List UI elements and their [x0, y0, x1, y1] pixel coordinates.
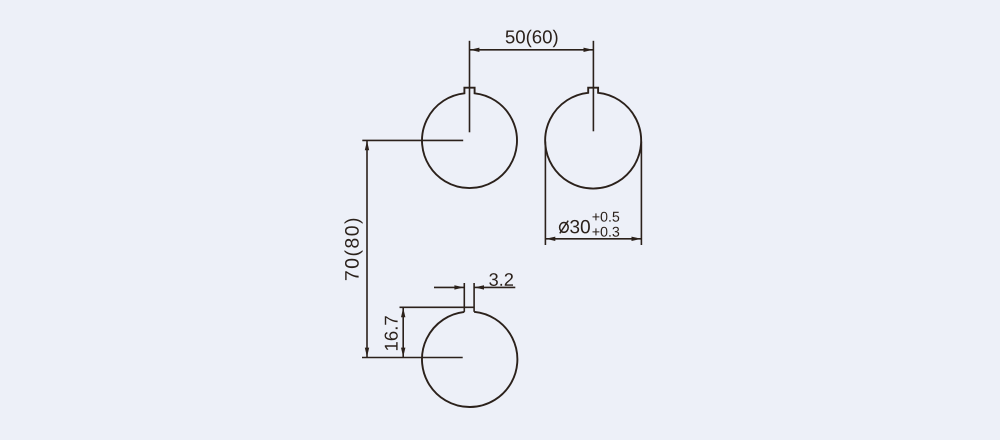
extension line bottom of 70(80), center line of bottom circle: [362, 357, 463, 359]
hole circle top-right with keyway notch: [545, 88, 641, 189]
arrowhead 70(80) bottom: [365, 348, 369, 358]
arrowhead 50(60) left: [470, 48, 480, 52]
hole circle top-left with keyway notch: [422, 88, 517, 188]
extension line top of 16.7, keyway top edge of bottom circle: [400, 306, 475, 308]
label 30 of diameter dimension: [570, 220, 590, 234]
label 70(80) rotated: [345, 219, 363, 280]
center line vertical, top-right circle (extension for 50(60)): [592, 41, 594, 132]
keyway side extension line right, bottom circle: [473, 283, 475, 312]
dimension line diameter 30: [545, 238, 641, 240]
arrowhead 70(80) top: [365, 141, 369, 151]
diameter symbol circle of ø30: [560, 223, 569, 233]
dimension line 3.2 left segment: [434, 286, 464, 288]
hole circle bottom with keyway notch: [422, 312, 517, 407]
extension line right of diameter dimension: [640, 142, 642, 246]
dimension line 70(80) vertical: [366, 140, 368, 357]
arrowhead 3.2 left (points right): [454, 285, 464, 289]
keyway side extension line left, bottom circle: [463, 283, 465, 312]
dimension line 3.2 right segment: [474, 286, 515, 288]
center line vertical, top-left circle (extension for 50(60)): [469, 41, 471, 133]
label tolerance +0.3: [593, 227, 620, 237]
dimension line 16.7 vertical: [402, 307, 404, 357]
arrowhead 16.7 top: [401, 308, 405, 318]
center line horizontal, top-left circle (extension for 70(80)): [362, 139, 463, 141]
diameter symbol slash of ø30: [560, 221, 568, 234]
label 3.2: [489, 273, 513, 286]
extension line left of diameter dimension: [544, 142, 546, 246]
dimension line 50(60): [470, 49, 594, 51]
label 50(60): [506, 30, 558, 47]
arrowhead diameter right: [632, 237, 642, 241]
arrowhead 3.2 right (points left): [475, 285, 485, 289]
arrowhead diameter left: [546, 237, 556, 241]
arrowhead 16.7 bottom: [401, 348, 405, 358]
label tolerance +0.5: [593, 212, 620, 222]
arrowhead 50(60) right: [584, 48, 594, 52]
label 16.7 rotated: [385, 316, 398, 350]
